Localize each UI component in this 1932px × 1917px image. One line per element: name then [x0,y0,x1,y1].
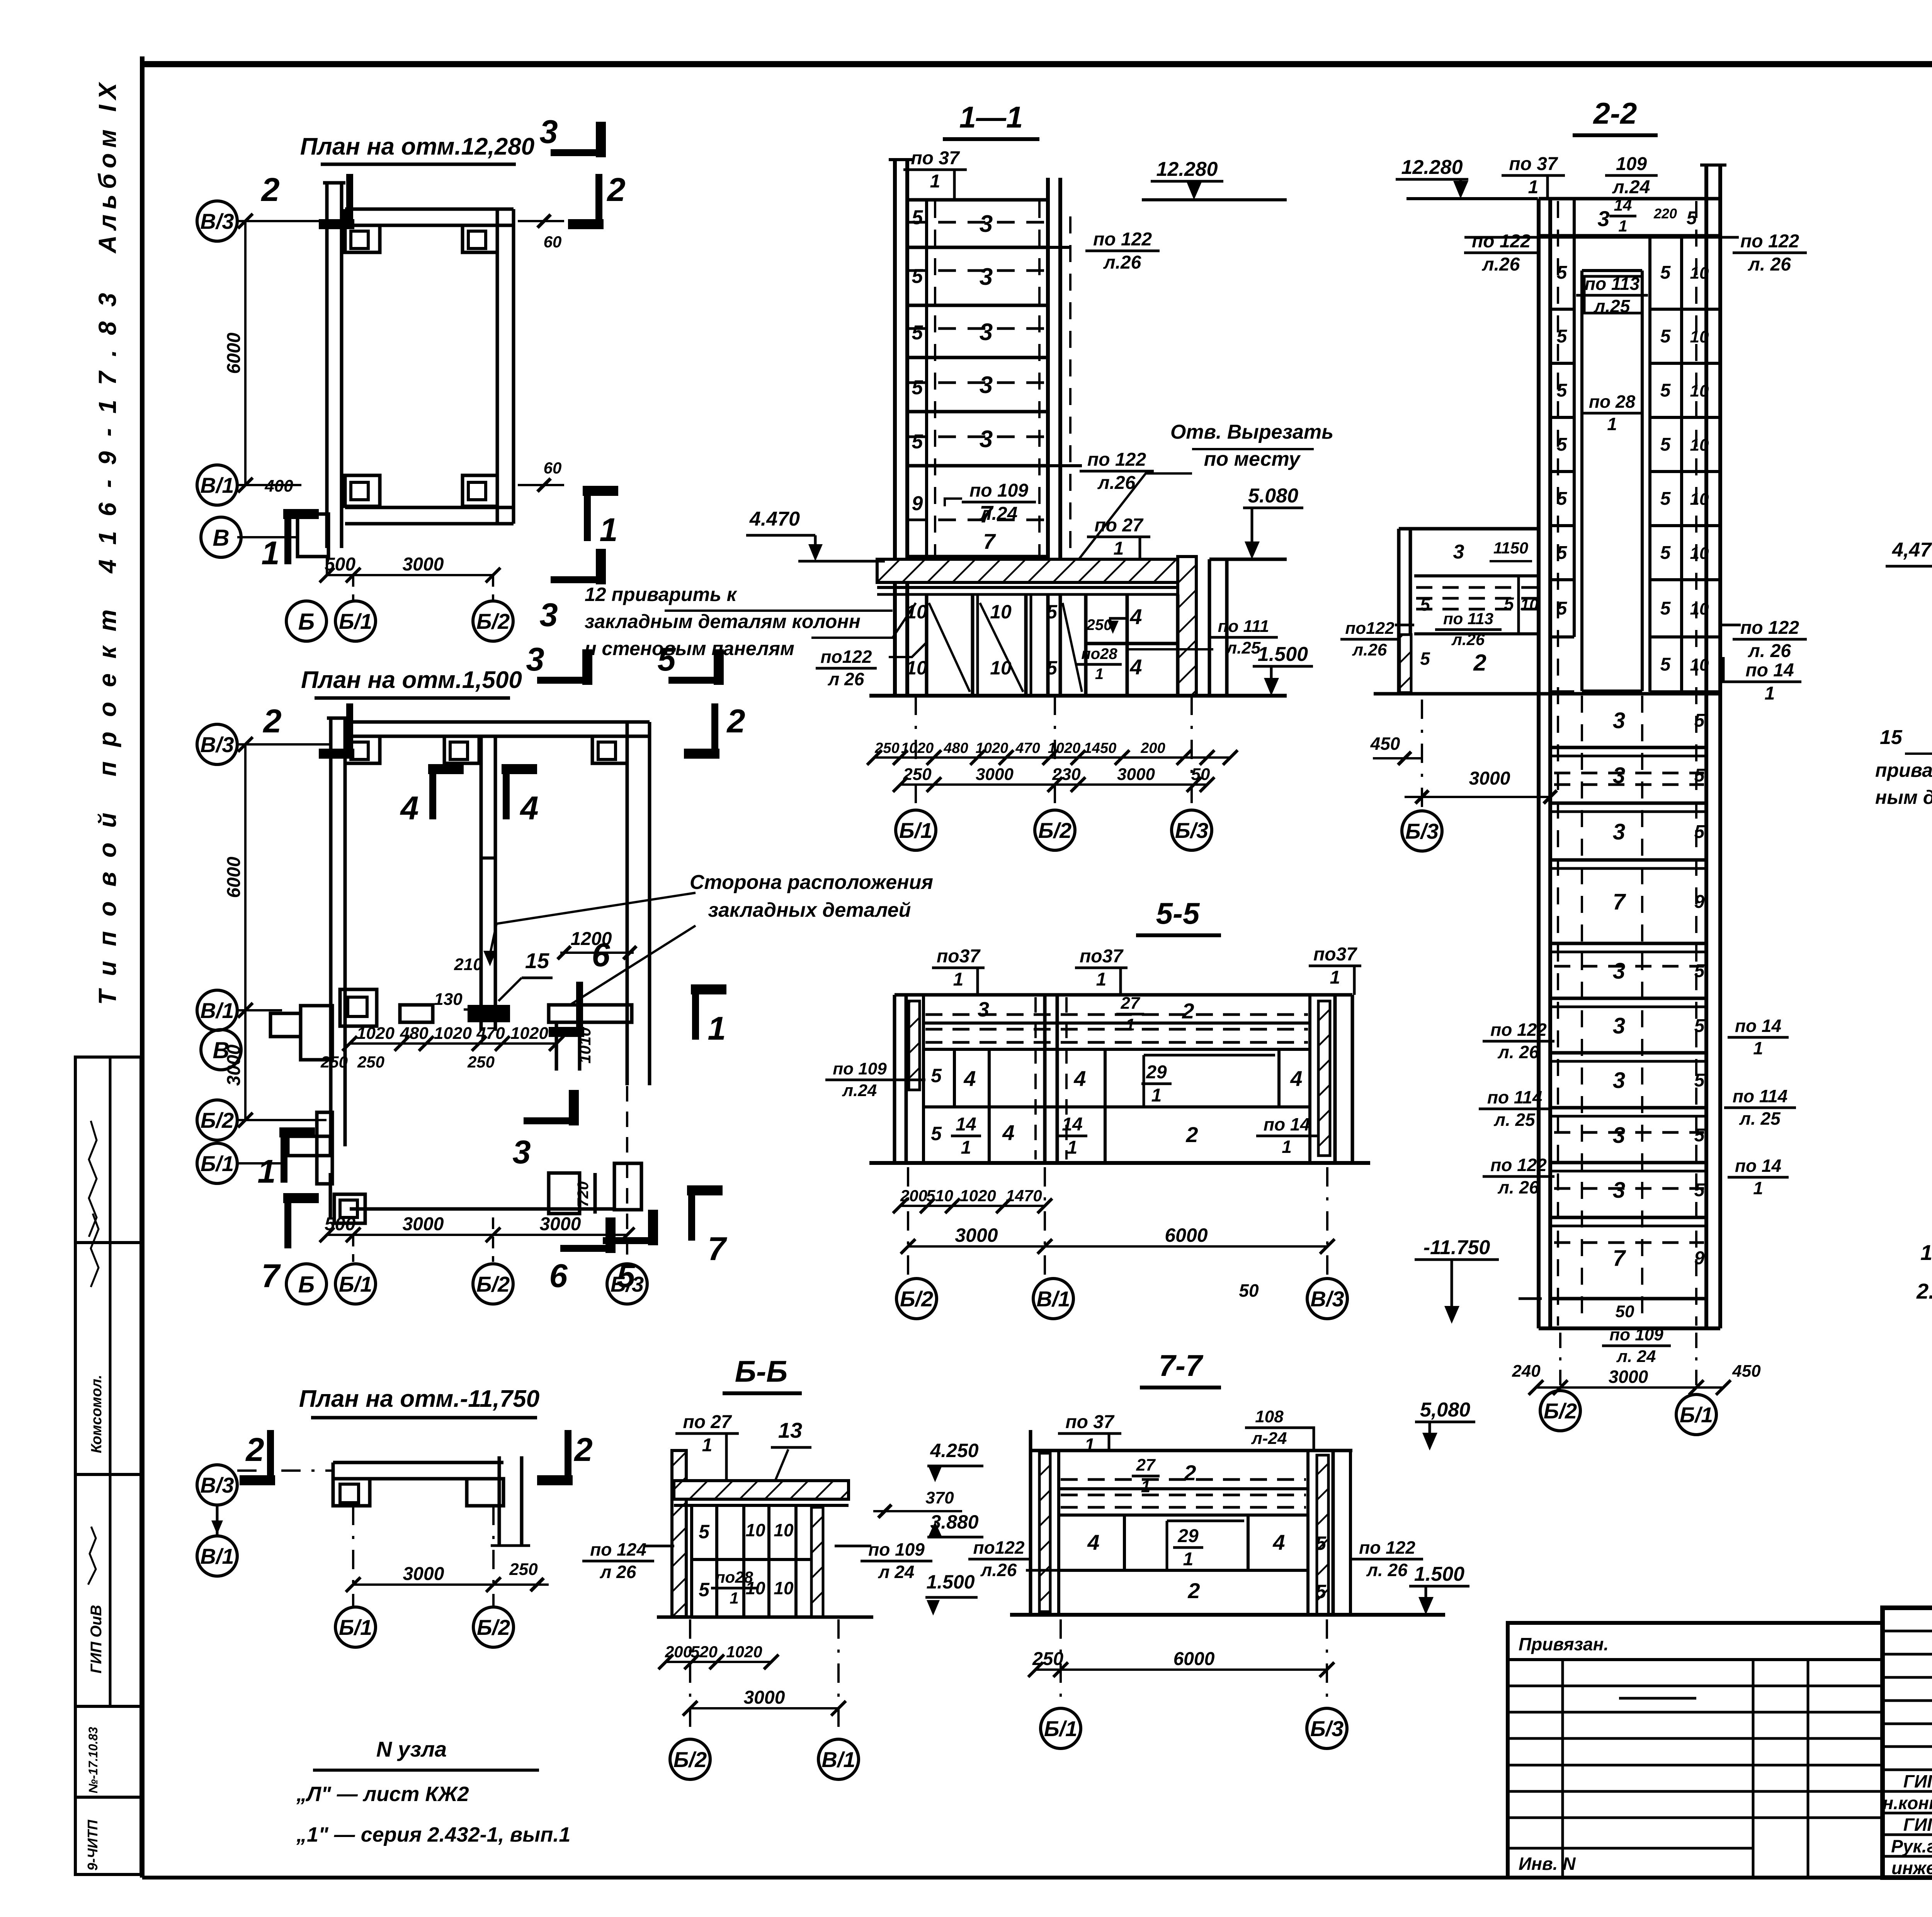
svg-text:5: 5 [912,322,923,344]
svg-text:10: 10 [1690,264,1709,283]
svg-text:1: 1 [1096,969,1107,990]
plan -11.750 right vertical strip [498,1456,501,1546]
5-5 middle column [1043,995,1047,1163]
svg-text:10: 10 [745,1520,765,1540]
1-1 axis circle Б/3 [1172,810,1212,850]
svg-text:1.500: 1.500 [1258,643,1308,666]
svg-text:250: 250 [903,765,932,784]
svg-text:4: 4 [963,1066,976,1091]
svg-text:по 122: по 122 [1359,1537,1415,1558]
svg-text:инжен.: инжен. [1891,1858,1932,1878]
2-2 inner vertical lines (strips) [1573,199,1576,637]
svg-text:ГИП: ГИП [1903,1815,1932,1835]
plan 1.500 axis circle В/3 [197,724,237,764]
svg-text:108: 108 [1255,1407,1284,1426]
svg-text:1: 1 [257,1153,276,1190]
svg-text:и стеновым панелям: и стеновым панелям [585,638,794,659]
svg-text:3000: 3000 [976,765,1014,784]
svg-text:л 26: л 26 [828,669,864,689]
svg-text:5: 5 [1694,765,1705,786]
svg-text:480: 480 [400,1024,429,1043]
svg-text:закладных деталей: закладных деталей [708,899,911,921]
svg-text:л.24: л.24 [1612,177,1650,197]
svg-text:по 122: по 122 [1490,1020,1547,1040]
svg-text:7-7: 7-7 [1159,1348,1204,1382]
svg-text:Б/2: Б/2 [201,1108,234,1132]
plan 12.280 bottom-left pier [298,514,328,557]
svg-text:Инв. N: Инв. N [1519,1854,1576,1874]
plan 12.280 bottom band [345,506,514,509]
svg-text:5: 5 [1687,208,1697,228]
svg-text:л.25: л.25 [1226,638,1261,657]
plan 1.500 inner divider wall [480,736,483,1031]
svg-text:1: 1 [930,171,940,192]
svg-text:14: 14 [1062,1114,1082,1135]
svg-text:5: 5 [1420,594,1430,615]
svg-text:5: 5 [1046,601,1058,623]
svg-text:5: 5 [1660,380,1671,401]
title block name rows [1883,1769,1932,1771]
svg-text:„Л" — лист КЖ2: „Л" — лист КЖ2 [296,1783,469,1806]
1-1 lower diagonal braces [929,603,970,692]
svg-text:1: 1 [961,1137,971,1158]
svg-text:План на отм.12,280: План на отм.12,280 [300,133,534,160]
svg-text:Б/1: Б/1 [339,1615,372,1639]
svg-text:5: 5 [912,206,923,229]
1-1 dim chain coarse [900,783,1207,786]
svg-text:450: 450 [1370,734,1400,754]
5-5 axis circle Б/2 [896,1279,937,1319]
svg-text:50: 50 [1239,1280,1259,1301]
svg-text:л. 26: л. 26 [1497,1177,1539,1197]
1-1 inner dashed verticals [934,201,936,557]
svg-text:6000: 6000 [224,332,244,374]
svg-text:2: 2 [245,1432,264,1468]
svg-text:230: 230 [1052,765,1081,784]
svg-text:4.470: 4.470 [749,508,800,530]
svg-text:3: 3 [539,597,558,633]
svg-text:Б/2: Б/2 [477,1615,510,1639]
plan 1.500 vertical dims 6000 3000 [244,744,247,1120]
svg-text:29: 29 [1146,1062,1167,1083]
svg-text:9: 9 [1694,892,1705,912]
1-1 axis risers [915,696,917,810]
svg-text:510: 510 [926,1187,953,1205]
svg-text:Б-Б: Б-Б [735,1354,787,1388]
svg-text:14: 14 [956,1114,976,1135]
svg-text:2: 2 [1185,1122,1198,1147]
2-2 left wing (5.080 walkway) [1397,529,1401,694]
plan -11.750 dim 3000 250 [353,1583,493,1586]
svg-text:по месту: по месту [1204,448,1301,470]
svg-text:10: 10 [1690,436,1709,455]
plan 12.280 axis circle Б/2 [473,601,513,641]
svg-text:3000: 3000 [224,1044,244,1086]
plan 12.280 axis circle В [201,517,241,557]
svg-text:3000: 3000 [403,1564,444,1584]
plan 12.280 cut mark 3 bottom [551,576,601,583]
svg-text:10: 10 [1690,381,1709,400]
plan 1.500 right strip [626,722,629,1085]
svg-text:5: 5 [1660,262,1671,283]
svg-text:1: 1 [1141,1477,1150,1496]
svg-text:1200: 1200 [571,929,612,949]
svg-text:н.контр.: н.контр. [1883,1793,1932,1813]
svg-text:л. 26: л. 26 [1748,254,1791,275]
svg-text:1020: 1020 [726,1643,762,1661]
svg-text:5,080: 5,080 [1420,1399,1470,1421]
frame bottom border [142,1876,1932,1880]
svg-text:ГИП: ГИП [1903,1771,1932,1791]
svg-text:1: 1 [1085,1435,1095,1456]
svg-text:по 27: по 27 [1094,515,1144,536]
1-1 floor double lines [877,586,1182,589]
svg-text:200: 200 [665,1643,692,1661]
2-2 axis circle Б/1 [1676,1394,1716,1435]
stamp signature squiggle [89,1121,97,1237]
svg-text:Б/2: Б/2 [476,1272,510,1296]
svg-text:по 14: по 14 [1745,660,1794,681]
7-7 ground line [1010,1613,1445,1617]
svg-text:3: 3 [980,264,993,290]
7-7 axis circle Б/3 [1307,1708,1347,1748]
svg-text:Б/2: Б/2 [900,1287,933,1311]
svg-text:по 109: по 109 [969,480,1028,501]
5-5 top chord [895,993,1352,997]
svg-text:по 14: по 14 [1735,1016,1781,1036]
svg-text:5: 5 [1557,543,1568,563]
svg-text:N узла: N узла [376,1737,447,1761]
svg-text:3: 3 [1597,206,1609,231]
left stamp boxes [75,1057,141,1243]
svg-text:План на отм.1,500: План на отм.1,500 [301,667,522,693]
svg-text:12.280: 12.280 [1401,156,1463,179]
svg-text:3: 3 [980,372,993,398]
svg-text:3: 3 [1613,1013,1625,1039]
plan 1.500 axis circle В/1 [197,990,237,1030]
7-7 left column [1029,1430,1032,1615]
svg-text:470: 470 [476,1024,505,1043]
svg-text:-11.750: -11.750 [1423,1236,1490,1259]
svg-text:по 122: по 122 [1093,229,1152,250]
2-2 upper ladder rows (5 / 5 / 10) [1550,234,1574,237]
6-6 axis circle Б/2 [670,1739,710,1779]
svg-text:по 14: по 14 [1264,1114,1310,1134]
svg-text:3000: 3000 [1469,768,1510,789]
5-5 dim chains [900,1205,1045,1207]
svg-text:л. 26: л. 26 [1497,1042,1539,1062]
svg-text:10: 10 [774,1520,794,1540]
svg-text:3000: 3000 [1117,765,1155,784]
plan -11.750 wall bar [333,1461,503,1464]
svg-text:1: 1 [1126,1015,1135,1034]
svg-text:3: 3 [1613,1123,1625,1148]
svg-text:1.500: 1.500 [1414,1563,1464,1585]
plan 12.280 cut mark 2 right [595,174,602,224]
2-2 ground line at 1.500 wing [1374,692,1720,696]
svg-text:5: 5 [912,376,923,399]
svg-text:Б/1: Б/1 [339,1272,372,1296]
svg-text:5: 5 [1660,598,1671,619]
svg-text:по 14: по 14 [1735,1156,1781,1176]
svg-text:5: 5 [931,1065,942,1086]
1-1 ground line [869,694,1287,698]
svg-text:2: 2 [1473,650,1486,676]
svg-text:1: 1 [1920,1240,1932,1265]
svg-text:3000: 3000 [1609,1367,1648,1387]
svg-text:10: 10 [906,657,927,679]
svg-text:60: 60 [544,459,562,477]
svg-text:4: 4 [1087,1530,1099,1554]
plan -11.750 axis circle Б/2 [473,1607,514,1647]
svg-text:л.26: л.26 [1482,254,1520,275]
plan 1.500 bottom-left pier [288,1136,330,1156]
svg-text:по28: по28 [715,1568,753,1586]
svg-text:4: 4 [400,790,418,827]
plan 1.500 bottom dim chain 500 3000 3000 [327,1234,627,1236]
svg-text:109: 109 [1616,154,1647,174]
svg-text:3: 3 [1613,819,1625,844]
plan 12.280 vertical dim 6000 [244,221,247,485]
frame left border [140,56,145,1878]
svg-text:по 37: по 37 [1509,154,1558,174]
plan 12.280 cut mark 1 bottom-left [284,514,291,564]
svg-text:Б/2: Б/2 [1038,818,1071,843]
plan 1.500 bottom axis circles [286,1264,327,1304]
plan -11.750 left column [333,1479,370,1506]
svg-text:Типовой проект 416-9-17.83: Типовой проект 416-9-17.83 [94,278,121,1005]
svg-text:10: 10 [1690,655,1709,674]
7-7 dim 250 6000 [1036,1668,1327,1671]
svg-text:6: 6 [549,1258,568,1294]
plan 12.280 axis circle Б [286,601,327,641]
svg-text:1: 1 [599,512,617,548]
svg-text:Б: Б [298,609,315,635]
svg-text:200: 200 [1140,740,1165,756]
svg-text:л.24: л.24 [842,1081,877,1100]
svg-text:Сторона расположения: Сторона расположения [690,871,933,894]
svg-text:В: В [213,525,229,551]
svg-text:5: 5 [1504,594,1514,614]
svg-text:4: 4 [1129,604,1142,629]
svg-text:л.26: л.26 [1103,252,1141,273]
svg-text:Б/2: Б/2 [1544,1399,1577,1423]
svg-text:1: 1 [702,1435,713,1456]
svg-text:л. 25: л. 25 [1493,1110,1536,1130]
7-7 top chord [1031,1449,1352,1452]
svg-text:по 124: по 124 [590,1539,646,1559]
svg-text:5: 5 [1557,380,1568,401]
svg-text:1: 1 [1618,217,1627,235]
6-6 panel area [690,1505,693,1617]
svg-text:по 37: по 37 [1065,1412,1115,1432]
title block thin rows [1883,1630,1932,1633]
svg-text:В/3: В/3 [200,732,234,757]
svg-text:3: 3 [980,211,993,237]
5-5 left column [893,995,896,1163]
svg-text:15: 15 [525,948,549,973]
svg-text:В/3: В/3 [1310,1287,1344,1311]
plan -11.750 axis line to B/3 [237,1469,333,1472]
svg-text:по 114: по 114 [1487,1087,1542,1107]
7-7 axis circle Б/1 [1041,1708,1081,1748]
svg-text:Б/2: Б/2 [673,1747,707,1772]
plan 12.280 bottom dim chain [327,574,493,576]
2-2 bottom dims [1536,1386,1723,1389]
svg-text:л. 26: л. 26 [1748,641,1791,661]
svg-text:по 113: по 113 [1443,609,1493,628]
plan 12.280 cut mark 2 left [346,174,353,224]
5-5 axis circle В/3 [1307,1279,1347,1319]
svg-text:по37: по37 [1313,944,1357,965]
svg-text:1: 1 [1095,666,1104,683]
svg-text:5: 5 [1694,710,1705,731]
svg-text:по 122: по 122 [1740,231,1799,252]
svg-text:29: 29 [1177,1526,1199,1546]
svg-text:200: 200 [900,1187,927,1205]
plan 12.280 dim 60 top right [518,220,564,222]
svg-text:3: 3 [1613,958,1625,984]
1-1 left panel strip [925,200,928,559]
svg-text:10: 10 [1690,599,1709,618]
svg-text:Комсомол.: Комсомол. [88,1375,105,1453]
svg-text:Б/1: Б/1 [1044,1716,1077,1741]
svg-text:1: 1 [730,1589,738,1607]
svg-text:1020: 1020 [901,740,934,756]
plan 12.280 left wall column strip [325,183,329,548]
plan 1.500 bottom wall Б/2 row [329,1173,332,1217]
svg-text:Рук.гр.: Рук.гр. [1891,1836,1932,1856]
svg-text:Б/1: Б/1 [339,609,372,633]
svg-text:1: 1 [1114,538,1124,559]
svg-text:1: 1 [1067,1137,1078,1158]
svg-text:250: 250 [467,1053,495,1071]
svg-text:5: 5 [1315,1532,1327,1554]
svg-text:5: 5 [912,265,923,288]
svg-text:4: 4 [1129,655,1142,679]
svg-text:5: 5 [1694,1180,1705,1200]
svg-text:4.250: 4.250 [930,1440,978,1461]
svg-text:240: 240 [1512,1362,1541,1381]
svg-text:2: 2 [262,703,281,740]
svg-text:Б/1: Б/1 [899,818,932,843]
svg-text:720: 720 [575,1182,592,1207]
svg-text:Б/2: Б/2 [476,609,510,633]
svg-text:5: 5 [1660,326,1671,347]
svg-text:3000: 3000 [540,1214,581,1234]
5-5 axis circle В/1 [1033,1279,1073,1319]
plan 1.500 cut marks [346,703,353,754]
svg-text:10: 10 [990,601,1012,623]
5-5 ground line [869,1161,1370,1165]
svg-text:5: 5 [1694,822,1705,842]
svg-text:1—1: 1—1 [959,100,1023,134]
svg-text:4: 4 [1002,1120,1014,1145]
svg-text:5: 5 [1557,598,1568,619]
plan 1.500 left wall column strip [329,718,333,1146]
svg-text:„1" — серия 2.432-1, вып.1: „1" — серия 2.432-1, вып.1 [296,1823,570,1846]
svg-text:5: 5 [1660,434,1671,455]
svg-text:10: 10 [1690,327,1709,346]
svg-text:по 28: по 28 [1589,392,1636,412]
plan 12.280 axis circle В/1 [197,465,237,505]
svg-text:12.280: 12.280 [1156,158,1218,180]
plan 1.500 dim chain 1020 480 1020 470 1020 [350,1042,556,1045]
svg-text:л 24: л 24 [878,1562,915,1582]
svg-text:1020: 1020 [357,1024,395,1043]
plan -11.750 right column [467,1479,503,1506]
svg-text:5: 5 [699,1521,710,1542]
5-5 top band rows [923,1021,1310,1025]
svg-text:В/1: В/1 [200,998,234,1023]
svg-text:л. 24: л. 24 [1616,1347,1656,1366]
plan 12.280 corner column top-right [463,225,497,252]
svg-text:10: 10 [1690,490,1709,509]
2-2 axis circle Б/3 [1402,811,1442,851]
plan -11.750 axis circle В/3 [197,1465,237,1505]
svg-text:4: 4 [1290,1066,1302,1091]
svg-text:4,470: 4,470 [1892,539,1932,561]
svg-text:закладным деталям колонн: закладным деталям колонн [585,611,861,632]
svg-text:3000: 3000 [403,1214,444,1234]
svg-text:Б/1: Б/1 [201,1151,234,1176]
svg-text:по 27: по 27 [683,1412,732,1432]
svg-text:Б/3: Б/3 [611,1272,644,1296]
svg-text:л.24: л.24 [980,504,1018,524]
2-2 top band row [1539,197,1720,201]
plan 12.280 corner column top-left [345,225,380,252]
svg-text:9: 9 [1694,1248,1705,1268]
svg-text:13: 13 [778,1418,802,1442]
svg-text:6000: 6000 [224,856,244,898]
7-7 right hatched column [1317,1455,1328,1615]
svg-text:370: 370 [925,1488,954,1507]
annex table left of title block [1508,1623,1883,1878]
svg-text:50: 50 [1191,765,1210,784]
svg-text:9-ЧИТП: 9-ЧИТП [85,1820,100,1871]
svg-text:1: 1 [1282,1137,1292,1157]
svg-text:27: 27 [1121,994,1141,1013]
2-2 main columns [1537,199,1541,1328]
svg-text:по 114: по 114 [1733,1086,1787,1106]
1-1 dim chain fine [874,756,1230,759]
svg-text:250: 250 [1086,616,1112,633]
1-1 axis circle Б/1 [896,810,936,850]
svg-text:1: 1 [707,1010,726,1047]
svg-text:7: 7 [1613,889,1626,914]
1-1 lower columns [925,594,929,696]
svg-text:2: 2 [1187,1578,1200,1603]
svg-text:2: 2 [726,703,745,740]
svg-text:2: 2 [1182,999,1194,1023]
svg-text:по37: по37 [937,946,981,967]
plan 1.500 top band [345,720,650,724]
svg-text:14: 14 [1614,196,1632,214]
svg-text:9: 9 [912,492,923,515]
svg-text:л.26: л.26 [1097,473,1136,493]
plan 1.500 left step blocks at В row [270,1013,301,1037]
plan 1.500 axis circle Б/1 [197,1143,237,1183]
6-6 axis circle В/1 [818,1739,859,1779]
svg-text:л.26: л.26 [1451,630,1485,649]
svg-text:Б/1: Б/1 [1680,1403,1713,1427]
svg-text:4: 4 [1073,1066,1086,1091]
svg-text:10: 10 [1520,595,1539,613]
svg-text:5: 5 [931,1123,942,1144]
svg-text:250: 250 [357,1053,384,1071]
svg-text:250: 250 [1032,1649,1063,1669]
svg-text:3: 3 [1613,1178,1625,1203]
